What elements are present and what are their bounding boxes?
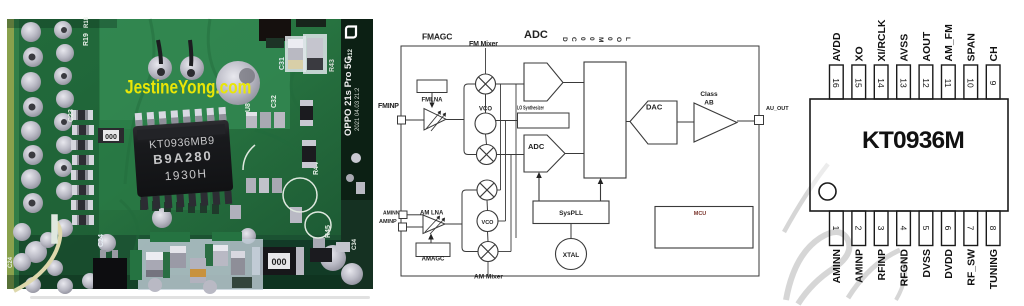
svg-text:AOUT: AOUT bbox=[921, 31, 933, 61]
mixer AM I (circle with X) bbox=[477, 180, 497, 200]
wire XTAL to SysPLL bbox=[570, 224, 572, 239]
dark pcb bottom right bbox=[230, 240, 373, 289]
svg-text:L: L bbox=[624, 37, 631, 41]
pin 1 AMINN bbox=[830, 211, 844, 283]
svg-text:XTAL: XTAL bbox=[563, 252, 580, 259]
svg-text:AMINN: AMINN bbox=[383, 211, 400, 217]
svg-text:7: 7 bbox=[966, 226, 976, 231]
node FMINP bbox=[378, 103, 406, 124]
faint gray streak below photo bbox=[30, 296, 370, 299]
svg-text:000: 000 bbox=[105, 134, 117, 141]
ADC I converter (flag shape) bbox=[524, 63, 563, 101]
pin 7 RF_SW bbox=[964, 211, 978, 286]
solder blob column 1 (left) bbox=[21, 22, 43, 213]
arrow AMAGC to AM LNA bbox=[430, 237, 432, 243]
svg-text:AVDD: AVDD bbox=[831, 32, 843, 61]
wire VCO to FM mixer I bbox=[485, 94, 487, 113]
wire FMINP to FMLNA bbox=[406, 119, 425, 121]
FMAGC control box bbox=[417, 80, 447, 93]
pin 10 SPAN bbox=[964, 33, 978, 99]
svg-text:5: 5 bbox=[921, 226, 931, 231]
svg-text:DAC: DAC bbox=[646, 103, 663, 112]
small parts on right strip bbox=[351, 153, 361, 163]
chip footprint pads below chip bbox=[140, 200, 219, 214]
svg-text:C: C bbox=[570, 37, 577, 42]
svg-text:C31: C31 bbox=[279, 57, 286, 70]
arrow FMAGC box to FMLNA bbox=[431, 93, 433, 105]
svg-text:ADC: ADC bbox=[524, 29, 548, 41]
pin 9 CH bbox=[986, 46, 1000, 99]
leader line FM Mixer label to mixer I bbox=[485, 48, 487, 74]
SysPLL box bbox=[533, 201, 609, 224]
svg-text:OPPO 21s Pro 5G: OPPO 21s Pro 5G bbox=[343, 56, 354, 136]
chip body bbox=[133, 120, 234, 198]
svg-text:AMINP: AMINP bbox=[854, 249, 866, 283]
svg-text:12: 12 bbox=[921, 78, 931, 88]
svg-text:FM Mixer: FM Mixer bbox=[469, 41, 498, 48]
svg-text:C23: C23 bbox=[68, 109, 75, 122]
svg-text:C34: C34 bbox=[352, 238, 358, 250]
lighter pcb patch mid bbox=[90, 120, 210, 210]
svg-text:AMINN: AMINN bbox=[831, 249, 843, 283]
svg-text:4: 4 bbox=[898, 226, 908, 231]
bus line AM mixer Q up to ADC Q bbox=[498, 155, 511, 252]
svg-text:XO: XO bbox=[854, 46, 866, 61]
svg-text:Class: Class bbox=[700, 91, 718, 98]
chip marking text bbox=[149, 135, 218, 184]
svg-text:8: 8 bbox=[988, 226, 998, 231]
pcb traces bbox=[120, 19, 315, 260]
wire split up to FM mixer I bbox=[464, 84, 476, 120]
white silkscreen bits bbox=[8, 16, 358, 268]
svg-text:R43: R43 bbox=[329, 59, 336, 72]
rotated DSP glyph row bbox=[561, 37, 631, 42]
svg-text:10: 10 bbox=[966, 78, 976, 88]
pin 6 DVDD bbox=[942, 211, 956, 279]
JestineYong.com watermark bbox=[125, 76, 251, 98]
svg-text:C24: C24 bbox=[8, 256, 14, 268]
svg-text:CH: CH bbox=[988, 46, 1000, 61]
chip boundary box bbox=[401, 46, 759, 276]
wire split down to FM mixer Q bbox=[464, 120, 477, 155]
svg-text:AMINP: AMINP bbox=[379, 219, 397, 225]
wire split down to AM mixer Q bbox=[462, 224, 478, 252]
leader line AM mixer Q to AM Mixer label bbox=[487, 262, 489, 277]
oscillator VCO AM circle bbox=[477, 211, 498, 232]
wire FM mixer I to ADC I bbox=[496, 83, 525, 85]
svg-text:C24: C24 bbox=[98, 234, 105, 247]
pin 3 RFINP bbox=[874, 211, 888, 281]
svg-text:AVSS: AVSS bbox=[898, 34, 910, 62]
svg-text:SPAN: SPAN bbox=[966, 33, 978, 61]
arrow SysPLL to ADC Q bbox=[538, 176, 540, 201]
svg-text:000: 000 bbox=[271, 257, 286, 267]
amplifier AM LNA triangle bbox=[423, 215, 445, 234]
small smd caps right of chip bbox=[246, 100, 316, 193]
pin 5 DVSS bbox=[919, 211, 933, 278]
svg-text:2021 04.03 21:2: 2021 04.03 21:2 bbox=[355, 87, 361, 131]
dark component top right of photo bbox=[259, 19, 291, 41]
pin 11 AM_FM bbox=[942, 24, 956, 99]
svg-text:KT0936M: KT0936M bbox=[862, 127, 964, 154]
pin 16 AVDD bbox=[830, 32, 844, 99]
svg-text:0: 0 bbox=[588, 37, 595, 41]
pin 14 XI/RCLK bbox=[874, 19, 888, 99]
svg-text:D: D bbox=[561, 37, 568, 42]
svg-text:RFGND: RFGND bbox=[898, 249, 910, 287]
svg-text:R18: R18 bbox=[84, 16, 90, 28]
right dark strip of photo bbox=[341, 19, 373, 289]
wire ADC I to DSP bbox=[563, 82, 584, 84]
watermark swirl bbox=[784, 164, 905, 304]
gain arrows through AM LNA bbox=[425, 217, 444, 234]
oscillator VCO FM circle bbox=[475, 113, 496, 134]
svg-text:RF_SW: RF_SW bbox=[966, 249, 978, 286]
svg-text:DVDD: DVDD bbox=[943, 249, 955, 279]
svg-text:U8: U8 bbox=[245, 103, 252, 112]
scattered solder blobs bbox=[25, 40, 363, 285]
wire Class AB to AU_OUT pad bbox=[737, 120, 755, 122]
svg-text:2: 2 bbox=[854, 226, 864, 231]
svg-text:VCO: VCO bbox=[482, 220, 495, 226]
pin 12 AOUT bbox=[919, 31, 933, 99]
IC chip KT0936M99 on photo bbox=[132, 107, 235, 210]
wire VCO to FM mixer Q bbox=[486, 134, 487, 145]
svg-text:M: M bbox=[597, 37, 604, 42]
extra mid components bbox=[230, 205, 325, 252]
svg-text:FMLNA: FMLNA bbox=[422, 98, 444, 104]
svg-text:13: 13 bbox=[898, 78, 908, 88]
MCU box bbox=[655, 207, 753, 249]
mixer AM Q (circle with X) bbox=[478, 242, 498, 262]
svg-text:O: O bbox=[615, 37, 622, 42]
AMAGC box bbox=[416, 243, 450, 257]
shading overlays bbox=[7, 19, 99, 289]
caps C31 R43 top right bbox=[279, 34, 336, 74]
smd resistor column bbox=[71, 110, 94, 225]
bottom components row bbox=[93, 232, 350, 294]
mixer FM Q (circle with X) bbox=[477, 145, 497, 165]
bus line AM mixer I up to ADC I bbox=[497, 84, 501, 190]
svg-text:SysPLL: SysPLL bbox=[559, 210, 583, 217]
svg-text:AB: AB bbox=[704, 100, 714, 107]
svg-text:FMAGC: FMAGC bbox=[422, 32, 452, 42]
svg-text:1930H: 1930H bbox=[164, 166, 208, 183]
pin 4 RFGND bbox=[897, 211, 911, 286]
svg-text:FMINP: FMINP bbox=[378, 103, 399, 110]
svg-text:9: 9 bbox=[988, 81, 998, 86]
ADC Q converter (flag shape) bbox=[524, 135, 565, 172]
bottom pins dark bbox=[141, 191, 233, 210]
wire VCO to LO synthesizer bbox=[496, 120, 518, 122]
DAC converter (left flag shape) bbox=[630, 101, 677, 144]
yellow-green strip left edge bbox=[7, 19, 14, 289]
gain arrows through FMLNA bbox=[426, 112, 445, 131]
bus line AM VCO up to LO synthesizer bbox=[498, 121, 506, 222]
IC package body KT0936M bbox=[810, 99, 1008, 211]
amplifier Class AB triangle bbox=[694, 103, 737, 142]
svg-text:JestineYong.com: JestineYong.com bbox=[125, 76, 251, 98]
oscillator XTAL circle bbox=[556, 239, 587, 270]
pcb photo base bbox=[7, 19, 373, 289]
svg-text:TUNING: TUNING bbox=[988, 249, 1000, 289]
small 000 resistor upper left bbox=[98, 128, 124, 143]
beige jumper wire bottom left bbox=[14, 220, 60, 291]
pin 2 AMINP bbox=[852, 211, 866, 283]
wire FM mixer Q to ADC Q bbox=[497, 154, 525, 156]
svg-text:14: 14 bbox=[876, 78, 886, 88]
mixer FM I (circle with X) bbox=[476, 74, 496, 94]
pin 8 TUNING bbox=[986, 211, 1000, 289]
wire AM VCO to AM mixer Q bbox=[487, 232, 490, 242]
wire split up to AM mixer I bbox=[462, 190, 477, 224]
svg-text:DVSS: DVSS bbox=[921, 249, 933, 278]
arrow SysPLL to DSP bbox=[600, 182, 602, 201]
lighter pcb patch top center bbox=[100, 19, 290, 129]
bus line LO distribution bbox=[515, 84, 517, 238]
svg-text:0: 0 bbox=[579, 37, 586, 41]
svg-text:15: 15 bbox=[854, 78, 864, 88]
svg-text:0: 0 bbox=[606, 37, 613, 41]
camera watermark logo square bbox=[346, 27, 356, 38]
wire ADC Q to DSP bbox=[565, 153, 584, 155]
dark pcb bottom strip bbox=[7, 235, 373, 289]
pin 1 indicator circle bbox=[819, 183, 836, 200]
wire AMINN to AMLNA bbox=[407, 214, 423, 216]
svg-text:XI/RCLK: XI/RCLK bbox=[876, 19, 888, 61]
svg-text:LO Synthesizer: LO Synthesizer bbox=[517, 106, 544, 112]
wire AMINP to AMLNA bbox=[407, 226, 424, 228]
svg-text:AU_OUT: AU_OUT bbox=[766, 106, 789, 112]
svg-text:6: 6 bbox=[943, 226, 953, 231]
amplifier FMLNA triangle bbox=[424, 109, 446, 131]
wire AM VCO to AM mixer I bbox=[486, 200, 489, 211]
label Class AB bbox=[700, 91, 718, 107]
node AU_OUT bbox=[755, 116, 764, 125]
svg-text:C32: C32 bbox=[271, 95, 278, 108]
svg-text:11: 11 bbox=[943, 79, 953, 88]
wire DSP to DAC bbox=[626, 121, 631, 123]
svg-text:RFINP: RFINP bbox=[876, 249, 888, 281]
pin 13 AVSS bbox=[897, 34, 911, 99]
svg-text:3: 3 bbox=[876, 226, 886, 231]
svg-text:AM_FM: AM_FM bbox=[943, 24, 955, 62]
wire FMLNA to FM mixers split bbox=[446, 119, 464, 121]
svg-text:R19: R19 bbox=[83, 33, 90, 46]
wire DAC to Class AB amp bbox=[677, 121, 694, 123]
DSP core block bbox=[584, 62, 626, 178]
wire AM LNA to AM mixers split bbox=[445, 223, 462, 225]
svg-text:16: 16 bbox=[831, 78, 841, 88]
svg-text:ADC: ADC bbox=[528, 142, 545, 151]
svg-text:MCU: MCU bbox=[694, 211, 707, 217]
pin 15 XO bbox=[852, 46, 866, 99]
black resistor 000 bbox=[252, 247, 304, 275]
LO synthesizer box bbox=[518, 113, 570, 128]
svg-text:1: 1 bbox=[831, 226, 841, 231]
extra blobs bottom-left cluster bbox=[13, 223, 98, 294]
solder blob column 2 bbox=[54, 21, 74, 200]
svg-text:AM Mixer: AM Mixer bbox=[474, 274, 503, 281]
svg-text:AMAGC: AMAGC bbox=[422, 257, 445, 263]
top pins bright bbox=[135, 107, 227, 127]
